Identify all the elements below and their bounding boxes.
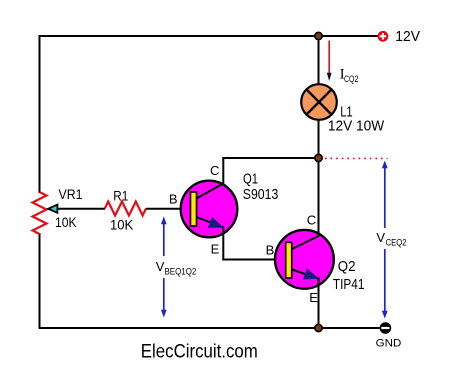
lamp L1 (circle with X) bbox=[301, 84, 337, 120]
svg-text:E: E bbox=[309, 290, 318, 305]
wire collector bus Q1 horizontal bbox=[222, 157, 318, 159]
wire top rail bbox=[40, 35, 378, 37]
svg-text:ElecCircuit.com: ElecCircuit.com bbox=[141, 341, 258, 363]
current arrow I_CQ2 bbox=[328, 41, 330, 75]
svg-text:TIP41: TIP41 bbox=[333, 277, 365, 293]
svg-text:GND: GND bbox=[376, 337, 402, 349]
svg-text:Q1: Q1 bbox=[243, 172, 258, 188]
wire Q1 emitter to Q2 base bbox=[222, 259, 286, 261]
svg-text:B: B bbox=[169, 192, 178, 207]
svg-text:B: B bbox=[266, 243, 275, 258]
svg-text:10K: 10K bbox=[110, 217, 133, 232]
red dotted line node VCE bbox=[325, 157, 388, 159]
wire R1 to Q1 base bbox=[146, 208, 191, 210]
svg-text:E: E bbox=[211, 241, 220, 256]
potentiometer VR1 bbox=[33, 192, 47, 234]
svg-text:Q2: Q2 bbox=[338, 259, 356, 275]
svg-text:V: V bbox=[156, 259, 165, 274]
GND terminal bbox=[380, 322, 392, 334]
svg-text:C: C bbox=[307, 212, 316, 227]
wire bottom rail bbox=[39, 327, 380, 329]
svg-text:12V: 12V bbox=[395, 29, 420, 45]
wire Q2 emitter bbox=[318, 278, 320, 329]
wire Q1 collector bbox=[222, 158, 224, 185]
node junction mid bbox=[315, 154, 322, 161]
wire Q2 collector bbox=[318, 158, 320, 237]
svg-text:R1: R1 bbox=[113, 189, 128, 204]
svg-text:12V 10W: 12V 10W bbox=[328, 119, 385, 135]
transistor Q2 bbox=[275, 230, 334, 289]
wire Q1 emitter down bbox=[222, 227, 224, 260]
VCEQ2 arrow bbox=[384, 167, 386, 313]
VR1 wiper arrow bbox=[48, 205, 57, 213]
wire left rail upper bbox=[39, 35, 41, 193]
svg-text:BEQ1Q2: BEQ1Q2 bbox=[165, 267, 197, 277]
node junction bottom bbox=[315, 324, 322, 331]
VBEQ1Q2 arrow bbox=[163, 223, 165, 312]
node junction top bbox=[315, 32, 322, 39]
wire lamp to junction bbox=[318, 120, 320, 159]
svg-text:10K: 10K bbox=[55, 215, 77, 230]
svg-text:S9013: S9013 bbox=[243, 187, 278, 203]
resistor R1 bbox=[105, 202, 146, 216]
transistor Q1 bbox=[181, 181, 238, 238]
svg-text:C: C bbox=[210, 163, 219, 178]
wire wiper to R1 bbox=[57, 208, 105, 210]
svg-text:CQ2: CQ2 bbox=[344, 74, 358, 84]
svg-text:V: V bbox=[376, 230, 385, 245]
wire left rail lower bbox=[39, 233, 41, 329]
+12V terminal bbox=[378, 31, 389, 42]
wire main vertical: top to lamp bbox=[318, 36, 320, 85]
svg-text:VR1: VR1 bbox=[59, 187, 83, 202]
svg-text:CEQ2: CEQ2 bbox=[386, 238, 407, 248]
